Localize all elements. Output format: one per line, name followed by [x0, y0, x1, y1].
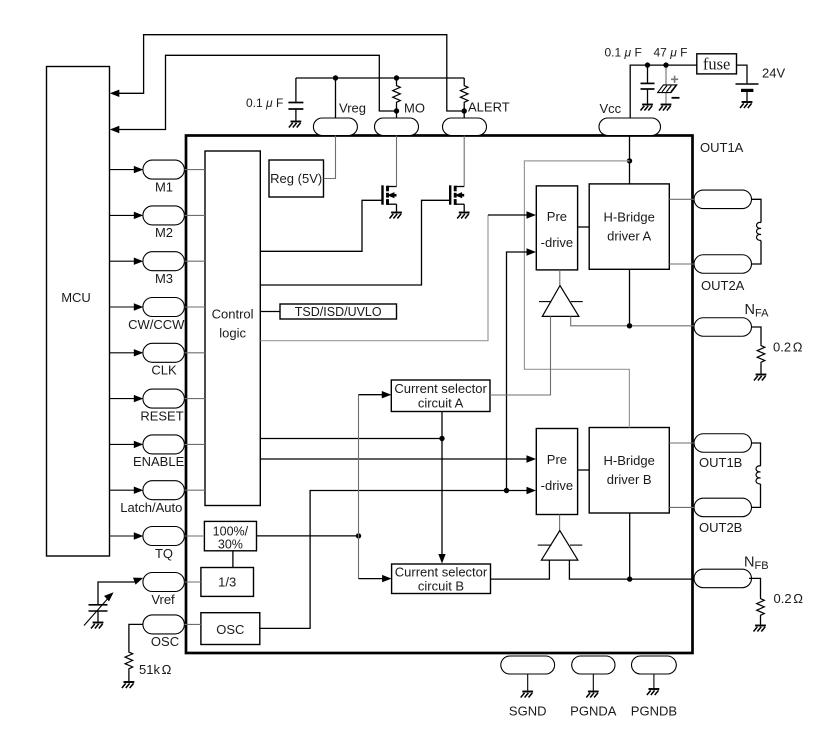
wire Vcc branch to H-bridge B [524, 161, 629, 428]
node Vcc rail 47uF [663, 62, 668, 67]
wire control logic to Q1 (MO monitor FET) gate [260, 200, 382, 251]
svg-text:-drive: -drive [541, 235, 574, 250]
svg-text:OUT1A: OUT1A [700, 140, 744, 155]
wire H-bridge B to OUT1B [669, 442, 694, 444]
svg-text:TQ: TQ [155, 546, 173, 561]
pin TQ [143, 527, 185, 546]
pin M1 [143, 160, 185, 179]
wire Vcc pin to H-bridge A [629, 136, 631, 184]
svg-text:ENABLE: ENABLE [133, 454, 185, 469]
wire CLK to control logic [184, 352, 205, 354]
TSD/ISD/UVLO block [280, 304, 397, 319]
svg-text:1/3: 1/3 [218, 575, 236, 590]
svg-text:H-Bridge: H-Bridge [604, 210, 655, 225]
wire H-bridge A to OUT1A [669, 198, 694, 200]
pin M2 [143, 206, 185, 225]
svg-text:PGNDB: PGNDB [631, 704, 677, 719]
wire current selector A to current selector B [441, 412, 443, 557]
svg-text:0.1 μ F: 0.1 μ F [605, 46, 642, 60]
motor winding A [752, 199, 762, 222]
wire M3 to control logic [184, 260, 205, 262]
pin MO [375, 118, 419, 136]
wire trunk to current selector A [359, 394, 385, 396]
wire rail to Vreg pin [335, 78, 337, 118]
ground (51k) [122, 682, 134, 688]
IC block outline [186, 136, 693, 654]
ground (0.1uF Vreg) [289, 122, 301, 128]
svg-text:circuit A: circuit A [418, 395, 464, 410]
svg-text:TSD/ISD/UVLO: TSD/ISD/UVLO [295, 305, 382, 319]
wire control logic to Q2 (ALERT FET) gate [260, 200, 450, 285]
wire M2 to control logic [184, 214, 205, 216]
svg-text:-drive: -drive [541, 478, 574, 493]
ground (potentiometer) [91, 623, 103, 629]
wire ENABLE to control logic [184, 443, 205, 445]
wire 100%/30% to selectors trunk [257, 535, 359, 537]
wire MCU to M2 [110, 214, 135, 216]
ground (battery) [740, 102, 752, 108]
svg-text:OUT2A: OUT2A [701, 278, 745, 293]
wire pin to Q1 (MO monitor FET) drain [396, 136, 398, 187]
transistor Q1 (MO monitor FET) [383, 185, 397, 211]
svg-text:PGNDA: PGNDA [570, 704, 617, 719]
pre-drive B [536, 429, 577, 515]
pin ENABLE [143, 435, 185, 454]
svg-text:CLK: CLK [151, 363, 177, 378]
svg-text:Current selector: Current selector [394, 381, 487, 396]
pin CW/CCW [143, 298, 185, 317]
svg-text:OUT2B: OUT2B [699, 520, 742, 535]
node NFB junction [627, 576, 632, 581]
pin NFA [694, 318, 752, 337]
ground (47uF) [659, 105, 671, 111]
svg-text:Vreg: Vreg [339, 101, 366, 116]
svg-text:51kΩ: 51kΩ [139, 662, 171, 677]
svg-text:RESET: RESET [140, 408, 183, 423]
svg-text:FB: FB [755, 560, 769, 572]
wire pre-drive A to comparator A [559, 270, 561, 285]
resistor ALERT pull-up [463, 78, 465, 84]
svg-text:ALERT: ALERT [468, 100, 510, 115]
svg-text:Pre: Pre [547, 209, 567, 224]
svg-text:OUT1B: OUT1B [699, 455, 742, 470]
OSC block [201, 613, 260, 645]
pin M3 [143, 252, 185, 271]
1/3 block [201, 568, 254, 597]
svg-text:M1: M1 [155, 179, 173, 194]
svg-text:H-Bridge: H-Bridge [604, 453, 655, 468]
H-bridge driver A [589, 184, 669, 269]
svg-text:30%: 30% [218, 537, 243, 551]
wire comparator A ref input from selector A [490, 316, 551, 395]
svg-text:logic: logic [219, 326, 246, 341]
pin Vref [143, 573, 185, 592]
fuse [697, 54, 737, 74]
wire RESET to control logic [184, 398, 205, 400]
node Vcc rail 0.1uF [645, 62, 650, 67]
wire control logic to pre-drive A upper input [260, 215, 488, 341]
wire OSC block to pre-drive chopper inputs [260, 491, 529, 629]
svg-text:OSC: OSC [216, 622, 244, 637]
wire potentiometer to Vref pin [98, 582, 135, 604]
wire MCU to CLK [110, 352, 135, 354]
wire trunk to current selector B [359, 578, 385, 580]
wire MCU to M3 [110, 260, 135, 262]
svg-text:MO: MO [404, 101, 425, 116]
pre-drive A [536, 186, 577, 270]
wire MCU to M1 [110, 169, 135, 171]
motor winding B [752, 443, 761, 466]
wire M1 to control logic [184, 169, 205, 171]
pin Vcc [599, 118, 661, 136]
transistor Q2 (ALERT FET) [450, 185, 464, 211]
svg-text:0.2Ω: 0.2Ω [774, 591, 804, 606]
pin OUT2A [694, 255, 752, 274]
pin Latch/Auto [143, 481, 185, 500]
node selector feed junction [439, 436, 444, 441]
battery 24V [736, 83, 759, 85]
wire Vref to 1/3 block [184, 581, 201, 583]
wire ALERT to MCU feedback [115, 35, 464, 111]
wire Latch/Auto to control logic [184, 489, 205, 491]
pin PGNDA [572, 656, 615, 674]
svg-text:Reg (5V): Reg (5V) [270, 171, 322, 186]
wire MO to MCU feedback [115, 55, 397, 129]
node rail/Vreg junction [333, 75, 338, 80]
wire H-bridge A to OUT2A [669, 263, 694, 265]
wire pre-drive A to H-bridge A [578, 226, 590, 228]
svg-text:N: N [745, 302, 755, 318]
regulator Reg (5V) [269, 160, 324, 197]
pin NFB [694, 569, 752, 588]
svg-text:fuse: fuse [703, 55, 731, 74]
pin OUT2B [694, 498, 752, 517]
wire control logic to current selector line [260, 438, 442, 440]
resistor 0.2ohm B [749, 578, 761, 597]
svg-text:CW/CCW: CW/CCW [128, 317, 185, 332]
svg-text:FA: FA [755, 308, 769, 320]
wire pre-drive B to H-bridge B [578, 469, 590, 471]
svg-text:Current selector: Current selector [395, 564, 488, 579]
node TQ trunk junction [356, 533, 361, 538]
capacitor 47uF electrolytic [665, 65, 667, 85]
capacitor 0.1uF (Vreg) [295, 78, 297, 102]
wire trunk vertical [358, 395, 360, 579]
wire MCU to RESET [110, 398, 135, 400]
Vreg supply rail [296, 77, 464, 79]
svg-text:24V: 24V [762, 66, 785, 81]
svg-text:0.2Ω: 0.2Ω [773, 340, 803, 355]
pin OUT1A [694, 190, 752, 209]
ground (Q2 (ALERT FET)) [457, 213, 469, 219]
current selector circuit A [391, 380, 490, 412]
comparator B [541, 531, 578, 561]
svg-text:Control: Control [212, 307, 254, 322]
comparator A [542, 286, 579, 317]
ground (Q1 (MO monitor FET)) [390, 213, 402, 219]
ground (0.2ohm B) [754, 626, 766, 632]
node rail/MO junction [394, 75, 399, 80]
wire TQ to control logic [184, 535, 204, 537]
svg-text:SGND: SGND [509, 704, 547, 719]
node ALERT wire junction [462, 108, 467, 113]
wire MCU to Latch/Auto [110, 489, 135, 491]
svg-text:47 μ F: 47 μ F [654, 46, 688, 60]
wire OSC pin to OSC block [184, 623, 201, 625]
ground (0.2ohm A) [754, 375, 766, 381]
svg-text:driver A: driver A [607, 229, 651, 244]
pin OSC [143, 615, 185, 634]
node NFA junction [627, 323, 632, 328]
wire comparator A sense to NFA [571, 316, 694, 325]
pin CLK [143, 343, 185, 362]
svg-text:Vcc: Vcc [600, 101, 622, 116]
wire pre-drive B to comparator B [559, 515, 561, 531]
wire comparator B ref input from selector B [491, 560, 550, 579]
wire 100%/30% to 1/3 [232, 551, 234, 568]
pin RESET [143, 389, 185, 408]
wire MCU to ENABLE [110, 443, 135, 445]
wire control logic to TSD [260, 311, 280, 313]
H-bridge driver B [589, 428, 669, 514]
wire OSC line to pre-drive A lower input [507, 252, 529, 491]
wire MCU to TQ [110, 535, 135, 537]
svg-text:circuit B: circuit B [418, 578, 464, 593]
wire comparator B sense to NFB [569, 560, 694, 579]
resistor 0.2ohm A [752, 327, 762, 344]
resistor MO pull-up [396, 78, 398, 84]
wire Vreg pin to regulator [324, 136, 336, 179]
ground (0.1uF Vcc) [641, 105, 653, 111]
svg-text:100%/: 100%/ [213, 524, 249, 538]
wire H-bridge A to NFA node [629, 269, 631, 326]
node MO wire junction [394, 108, 399, 113]
pin SGND [501, 656, 555, 674]
wire H-bridge B to NFB node [629, 513, 631, 579]
wire pin to Q2 (ALERT FET) drain [463, 136, 465, 187]
capacitor 0.1uF (Vcc) [647, 65, 649, 83]
100%/30% block [204, 521, 256, 550]
wire PGNDA to ground [592, 674, 594, 691]
svg-text:Latch/Auto: Latch/Auto [120, 500, 182, 515]
wire MCU to CW/CCW [110, 306, 135, 308]
svg-text:M2: M2 [155, 225, 173, 240]
svg-text:driver B: driver B [607, 472, 652, 487]
pin PGNDB [632, 656, 677, 674]
wire control logic to pre-drive B upper input [260, 458, 528, 460]
svg-text:MCU: MCU [61, 290, 91, 305]
svg-text:Pre: Pre [547, 452, 567, 467]
pin OUT1B [694, 434, 752, 453]
wire CW/CCW to control logic [184, 306, 205, 308]
wire PGNDB to ground [653, 674, 655, 688]
wire H-bridge B to OUT2B [669, 506, 694, 508]
potentiometer (Vref divider) [89, 604, 108, 606]
wire SGND to ground [527, 674, 529, 691]
control logic block [205, 151, 260, 506]
wire fuse to battery [737, 65, 748, 83]
resistor 51k [129, 624, 143, 650]
svg-text:OSC: OSC [151, 634, 179, 649]
MCU [47, 67, 110, 557]
Vcc supply rail [630, 65, 697, 118]
svg-text:N: N [744, 555, 754, 571]
pin ALERT [443, 118, 487, 136]
svg-text:0.1 μ F: 0.1 μ F [246, 96, 283, 110]
current selector circuit B [392, 564, 491, 594]
node OSC line junction [504, 488, 509, 493]
svg-text:M3: M3 [155, 271, 173, 286]
pin Vreg [313, 118, 357, 136]
node Vcc branch [627, 158, 632, 163]
svg-text:Vref: Vref [151, 592, 175, 607]
